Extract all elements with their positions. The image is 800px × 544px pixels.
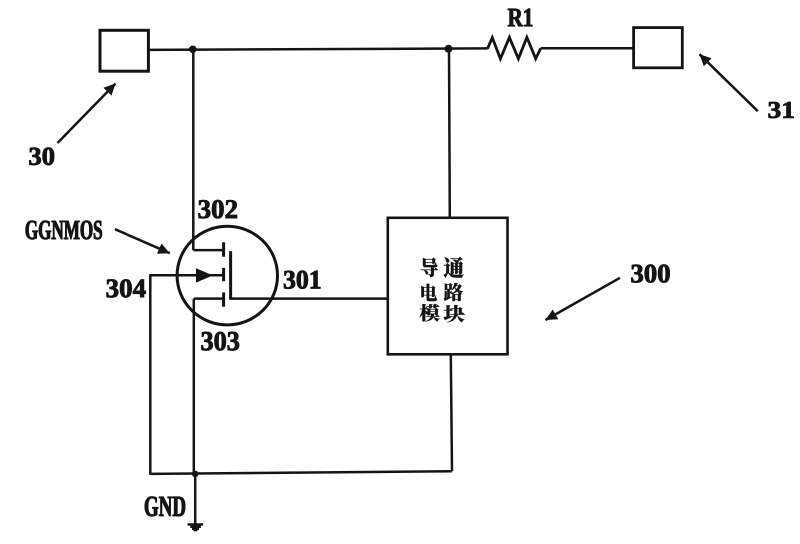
label GGNMOS (26, 221, 102, 240)
label 304 (107, 279, 146, 297)
wire: source vertical (GGNMOS source to bottom rail) (193, 299, 196, 474)
module text char 电 (421, 284, 437, 302)
junction node at GND (192, 471, 199, 478)
wire: bottom rail (150, 471, 452, 474)
wire: body to left rail (node 304) (150, 274, 223, 277)
GGNMOS dashed channel line (222, 242, 225, 306)
wire: drain vertical (top rail to GGNMOS drain) (192, 49, 195, 250)
label 303 (202, 332, 240, 351)
module text char 路 (444, 283, 464, 302)
ground symbol (188, 523, 204, 531)
GGNMOS gate plate (pin 301) (229, 251, 232, 300)
wire: top rail to module box top (448, 49, 451, 218)
module text char 模 (420, 304, 440, 322)
module text char 通 (444, 257, 464, 278)
junction node at module branch (445, 45, 453, 53)
label R1 (508, 9, 532, 27)
label GND (145, 497, 185, 517)
pad/terminal 30 (100, 30, 148, 71)
arrow to module 300 (546, 278, 621, 320)
arrow to pad 30 (58, 84, 116, 144)
label 300 (631, 265, 669, 283)
module text char 导 (420, 258, 438, 278)
wire: gate to module box (node 301) (231, 297, 388, 300)
GGNMOS body arrow (pin 304) (196, 268, 213, 282)
wire: left rail vertical (304 to bottom rail) (149, 274, 152, 475)
arrow to pad 31 (700, 54, 758, 111)
module text char 块 (444, 305, 465, 323)
wire: module box bottom to bottom rail (451, 354, 452, 471)
wire: resistor R1 to pad 31 (541, 47, 634, 50)
label 302 (199, 200, 237, 218)
wire: GND stem (194, 474, 197, 524)
pad/terminal 31 (634, 28, 683, 68)
label 30 (29, 148, 54, 165)
transistor GGNMOS circle (177, 226, 277, 325)
label 31 (769, 102, 794, 118)
GGNMOS drain connector (pin 302) (193, 249, 223, 252)
module box 300 (conduction circuit module) (388, 218, 508, 354)
wire: top rail left (pad 30 to resistor R1) (148, 48, 487, 50)
resistor R1 (zigzag) (488, 37, 541, 58)
label 301 (284, 271, 320, 289)
arrow to GGNMOS (115, 229, 170, 254)
junction node at drain branch (189, 46, 197, 54)
GGNMOS source connector (pin 303) (194, 297, 224, 300)
